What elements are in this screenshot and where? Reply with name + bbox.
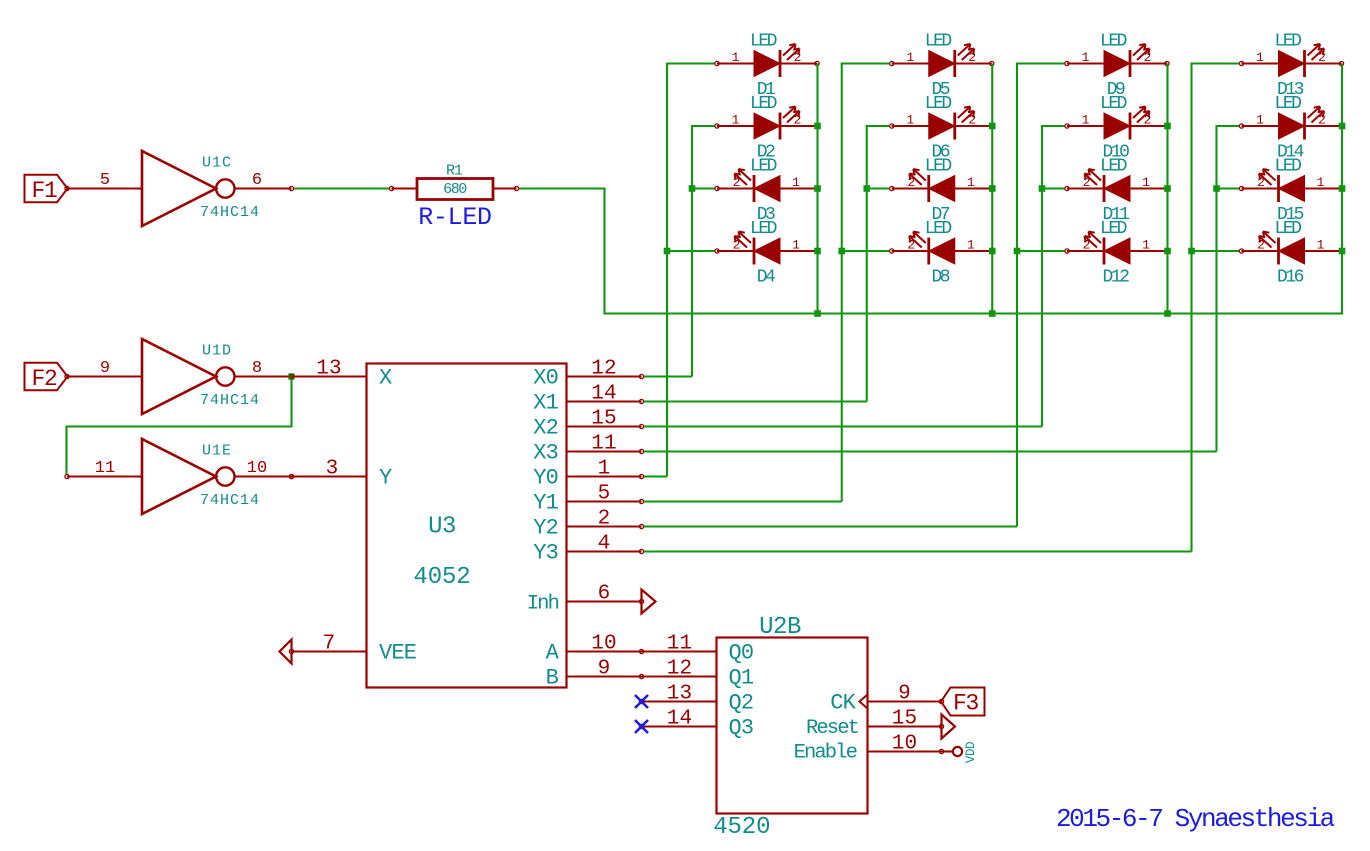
svg-text:2: 2: [1144, 113, 1152, 128]
wire Y0 to LED column 1: [644, 475, 667, 477]
junction column 3 common row3: [1164, 185, 1171, 192]
svg-text:1: 1: [1317, 175, 1325, 190]
svg-text:1: 1: [792, 238, 800, 253]
svg-text:1: 1: [1082, 113, 1090, 128]
svg-text:10: 10: [247, 459, 267, 478]
svg-text:12: 12: [591, 358, 617, 381]
svg-text:LED: LED: [925, 94, 952, 114]
wire LED column 1 net B horizontal D2: [691, 125, 715, 127]
svg-text:LED: LED: [925, 31, 952, 51]
svg-text:LED: LED: [1100, 94, 1127, 114]
svg-text:2: 2: [968, 113, 976, 128]
LED D13: [1239, 31, 1343, 100]
LED D14: [1239, 94, 1343, 163]
junction column 3 common row2: [1164, 123, 1171, 130]
svg-text:X2: X2: [533, 416, 558, 441]
wire X1 to LED column 2: [644, 400, 867, 402]
svg-text:X: X: [379, 366, 392, 391]
LED common bus wire: [604, 312, 1343, 314]
svg-text:14: 14: [591, 383, 617, 406]
svg-text:X0: X0: [533, 366, 558, 391]
svg-text:4: 4: [598, 533, 611, 556]
svg-text:14: 14: [667, 708, 693, 731]
wire LED column 2 common vertical: [991, 64, 993, 314]
wire D3 to net B: [692, 187, 715, 189]
svg-text:Y0: Y0: [533, 466, 558, 491]
svg-text:13: 13: [316, 358, 342, 381]
svg-text:11: 11: [591, 433, 617, 456]
LED D5: [890, 31, 994, 100]
wire LED column 1 common vertical: [816, 64, 818, 314]
svg-text:U3: U3: [428, 514, 456, 541]
svg-text:B: B: [546, 666, 559, 691]
svg-text:Q0: Q0: [729, 641, 754, 666]
wire LED column 3 net B vertical: [1041, 125, 1043, 427]
svg-text:1: 1: [1142, 175, 1150, 190]
svg-text:F2: F2: [31, 366, 57, 392]
svg-text:1: 1: [732, 50, 740, 65]
svg-text:2: 2: [907, 175, 915, 190]
junction column 4 common row2: [1339, 123, 1346, 130]
svg-text:3: 3: [326, 458, 339, 481]
svg-text:1: 1: [1256, 113, 1264, 128]
svg-text:5: 5: [598, 483, 611, 506]
svg-text:680: 680: [443, 181, 467, 198]
junction column 4 common row4: [1339, 248, 1346, 255]
svg-text:LED: LED: [925, 156, 952, 176]
multiplexer U3 4052: [289, 358, 643, 691]
svg-text:2: 2: [907, 238, 915, 253]
hierarchical label arrow on VEE pin 7: [280, 640, 292, 664]
svg-text:1: 1: [792, 175, 800, 190]
svg-text:2: 2: [1083, 238, 1091, 253]
svg-text:Y2: Y2: [533, 516, 558, 541]
junction column 1 common row2: [814, 123, 821, 130]
svg-text:F3: F3: [953, 691, 979, 717]
junction column 1 common at bus: [814, 310, 821, 317]
LED D8: [890, 219, 994, 288]
svg-text:Q2: Q2: [729, 691, 754, 716]
svg-text:Inh: Inh: [527, 593, 559, 616]
svg-text:1: 1: [906, 50, 914, 65]
svg-text:Reset: Reset: [806, 717, 859, 740]
svg-text:D12: D12: [1103, 268, 1130, 288]
svg-text:LED: LED: [1100, 156, 1127, 176]
global label F3: [941, 688, 985, 717]
wire LED column 4 common vertical: [1341, 64, 1343, 315]
global label F2: [25, 363, 68, 392]
wire Y1 to LED column 2: [644, 500, 842, 502]
svg-text:LED: LED: [925, 219, 952, 239]
svg-text:CK: CK: [830, 691, 856, 716]
svg-text:F1: F1: [31, 178, 57, 204]
junction D15 net B: [1213, 185, 1220, 192]
inverter U1D 74HC14: [65, 339, 292, 414]
svg-text:LED: LED: [750, 219, 777, 239]
junction column 2 common row4: [989, 248, 996, 255]
svg-text:9: 9: [100, 359, 110, 378]
wire LED column 2 net A vertical: [841, 63, 843, 502]
svg-text:U1C: U1C: [202, 155, 232, 172]
svg-text:1: 1: [906, 113, 914, 128]
svg-text:2: 2: [1257, 175, 1265, 190]
wire LED column 3 net A vertical: [1016, 63, 1018, 527]
wire LED column 3 common vertical: [1166, 64, 1168, 314]
wire D15 to net B: [1217, 187, 1240, 189]
svg-text:LED: LED: [1275, 219, 1302, 239]
svg-text:D16: D16: [1277, 268, 1304, 288]
hierarchical label arrow on Inh pin 6: [642, 590, 656, 614]
wire LED column 4 net B vertical: [1215, 125, 1217, 452]
wire LED column 1 net B vertical: [691, 125, 693, 377]
svg-text:VDD: VDD: [964, 742, 978, 763]
LED D12: [1065, 219, 1169, 288]
junction column 1 common row4: [814, 248, 821, 255]
wire D16 to net A: [1192, 250, 1240, 252]
junction column 4 common row3: [1339, 185, 1346, 192]
svg-text:X1: X1: [533, 391, 558, 416]
junction X node: [288, 373, 294, 379]
LED D9: [1065, 31, 1169, 100]
svg-text:U2B: U2B: [759, 614, 801, 641]
svg-text:1: 1: [1142, 238, 1150, 253]
svg-text:1: 1: [598, 458, 611, 481]
svg-text:10: 10: [591, 633, 617, 656]
junction column 1 common row3: [814, 185, 821, 192]
LED D1: [715, 31, 819, 100]
wire Y3 to LED column 4: [644, 550, 1192, 552]
wire D11 to net B: [1042, 187, 1065, 189]
svg-text:LED: LED: [750, 156, 777, 176]
wire X0 to LED column 1: [644, 375, 692, 377]
LED D4: [715, 219, 819, 288]
power symbol VDD on Enable pin 10: [942, 742, 979, 763]
LED D15: [1239, 156, 1343, 225]
svg-text:2015-6-7 Synaesthesia: 2015-6-7 Synaesthesia: [1056, 804, 1335, 834]
svg-text:11: 11: [95, 459, 115, 478]
wire D12 to net A: [1017, 250, 1065, 252]
svg-text:10: 10: [892, 733, 918, 756]
wire D8 to net A: [842, 250, 890, 252]
svg-text:1: 1: [967, 175, 975, 190]
wire LED column 3 net B horizontal D10: [1041, 125, 1065, 127]
LED D3: [715, 156, 819, 225]
junction D7 net B: [863, 185, 870, 192]
svg-text:9: 9: [898, 683, 911, 706]
svg-text:2: 2: [733, 175, 741, 190]
wire U1C output to R1: [294, 187, 389, 189]
wire X3 to LED column 4: [644, 450, 1217, 452]
junction D12 net A: [1014, 248, 1021, 255]
no-connect Q3: [635, 720, 648, 733]
svg-text:1: 1: [1317, 238, 1325, 253]
svg-text:R-LED: R-LED: [418, 203, 492, 232]
svg-text:Q1: Q1: [729, 666, 754, 691]
junction D3 net B: [689, 185, 696, 192]
junction D4 net A: [664, 248, 671, 255]
junction D8 net A: [838, 248, 845, 255]
junction column 2 common at bus: [989, 310, 996, 317]
svg-text:2: 2: [794, 113, 802, 128]
svg-text:5: 5: [100, 171, 110, 190]
svg-text:Q3: Q3: [729, 716, 754, 741]
svg-text:Y: Y: [379, 466, 392, 491]
LED D6: [890, 94, 994, 163]
resistor R1 680 R-LED: [389, 163, 518, 233]
svg-text:2: 2: [1318, 50, 1326, 65]
inverter U1E 74HC14: [65, 439, 292, 514]
svg-text:1: 1: [1256, 50, 1264, 65]
junction D11 net B: [1039, 185, 1046, 192]
junction column 2 common row2: [989, 123, 996, 130]
wire LED column 4 net A horizontal D13: [1191, 62, 1240, 64]
LED D16: [1239, 219, 1343, 288]
LED D2: [715, 94, 819, 163]
svg-text:6: 6: [598, 583, 611, 606]
svg-text:8: 8: [252, 359, 262, 378]
svg-text:2: 2: [1083, 175, 1091, 190]
svg-text:X3: X3: [533, 441, 558, 466]
svg-text:LED: LED: [750, 94, 777, 114]
svg-text:7: 7: [323, 633, 336, 656]
svg-text:2: 2: [1144, 50, 1152, 65]
svg-text:Y1: Y1: [533, 491, 558, 516]
svg-text:D8: D8: [931, 268, 949, 288]
wire feedback X node down: [290, 377, 292, 427]
counter U2B 4520: [639, 614, 943, 841]
svg-text:Enable: Enable: [794, 742, 857, 765]
svg-text:LED: LED: [750, 31, 777, 51]
svg-text:9: 9: [598, 658, 611, 681]
svg-text:74HC14: 74HC14: [200, 204, 260, 221]
wire Y2 to LED column 3: [644, 525, 1017, 527]
wire feedback horizontal: [67, 425, 293, 427]
svg-text:U1D: U1D: [202, 343, 232, 360]
svg-text:4052: 4052: [413, 564, 470, 591]
wire R1 to LED common bus: [519, 187, 605, 189]
no-connect Q2: [635, 695, 648, 708]
svg-text:2: 2: [968, 50, 976, 65]
wire LED column 2 net A horizontal D5: [841, 62, 890, 64]
svg-text:LED: LED: [1100, 219, 1127, 239]
svg-text:74HC14: 74HC14: [200, 492, 260, 509]
svg-text:LED: LED: [1275, 156, 1302, 176]
global label F1: [25, 175, 68, 204]
svg-text:2: 2: [794, 50, 802, 65]
LED D7: [890, 156, 994, 225]
svg-text:R1: R1: [446, 163, 463, 180]
svg-text:11: 11: [667, 633, 693, 656]
svg-text:2: 2: [733, 238, 741, 253]
LED D10: [1065, 94, 1169, 163]
svg-text:A: A: [546, 641, 560, 666]
pin end U1E output: [289, 474, 293, 478]
svg-text:2: 2: [1257, 238, 1265, 253]
svg-text:12: 12: [667, 658, 693, 681]
svg-text:1: 1: [967, 238, 975, 253]
svg-text:2: 2: [598, 508, 611, 531]
junction D16 net A: [1188, 248, 1195, 255]
svg-text:15: 15: [892, 708, 918, 731]
svg-text:U1E: U1E: [202, 443, 232, 460]
LED D11: [1065, 156, 1169, 225]
svg-text:VEE: VEE: [379, 641, 417, 666]
wire LED column 1 net A horizontal D1: [666, 62, 715, 64]
svg-text:Y3: Y3: [533, 541, 558, 566]
wire down to bus: [603, 188, 605, 314]
svg-text:D4: D4: [757, 268, 775, 288]
inverter U1C 74HC14: [65, 151, 292, 226]
svg-text:1: 1: [1082, 50, 1090, 65]
wire LED column 2 net B vertical: [866, 125, 868, 402]
wire X2 to LED column 3: [644, 425, 1042, 427]
wire feedback down to U1E input: [65, 426, 67, 475]
svg-text:LED: LED: [1275, 94, 1302, 114]
svg-text:74HC14: 74HC14: [200, 392, 260, 409]
wire LED column 2 net B horizontal D6: [866, 125, 890, 127]
clock wedge on CK pin: [860, 695, 868, 709]
wire LED column 1 net A vertical: [666, 63, 668, 477]
svg-text:2: 2: [1318, 113, 1326, 128]
junction column 3 common row4: [1164, 248, 1171, 255]
junction column 2 common row3: [989, 185, 996, 192]
wire D7 to net B: [867, 187, 890, 189]
wire LED column 4 net B horizontal D14: [1216, 125, 1240, 127]
svg-text:4520: 4520: [713, 814, 770, 841]
wire D4 to net A: [667, 250, 715, 252]
svg-text:LED: LED: [1275, 31, 1302, 51]
svg-text:6: 6: [252, 171, 262, 190]
svg-text:13: 13: [667, 683, 693, 706]
wire LED column 3 net A horizontal D9: [1016, 62, 1065, 64]
svg-text:1: 1: [732, 113, 740, 128]
junction column 3 common at bus: [1164, 310, 1171, 317]
hierarchical label arrow on Reset pin 15: [942, 715, 956, 739]
svg-text:LED: LED: [1100, 31, 1127, 51]
svg-text:15: 15: [591, 408, 617, 431]
wire LED column 4 net A vertical: [1190, 63, 1192, 552]
